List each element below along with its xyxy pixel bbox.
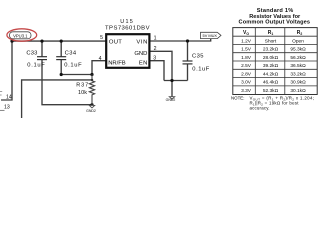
red annotation ellipse [7, 29, 37, 41]
svg-text:3: 3 [153, 55, 156, 61]
wire GND pin 2 down [150, 51, 173, 80]
svg-text:4: 4 [99, 56, 102, 62]
svg-text:NR/FB: NR/FB [108, 60, 126, 66]
pin 13 stub [0, 109, 5, 111]
wire from net label down to pin 14 [1, 41, 12, 100]
svg-text:44.2kΩ: 44.2kΩ [263, 71, 279, 77]
capacitor C33 [37, 57, 47, 60]
wire VIN pin 1 to 5V MUX flag [150, 38, 211, 41]
table grid [233, 28, 317, 95]
wire C33 top lead [41, 41, 43, 56]
wire output net main horizontal [12, 40, 106, 42]
svg-text:Short: Short [265, 38, 277, 44]
wire rail lower net to NR/FB node [22, 80, 92, 118]
svg-text:GND2: GND2 [86, 109, 96, 113]
svg-text:1.2V: 1.2V [241, 38, 252, 44]
svg-text:C34: C34 [65, 51, 77, 57]
wire right ground stem [171, 81, 173, 97]
node junction dots [10, 39, 189, 106]
svg-text:U15: U15 [120, 19, 133, 25]
op-amp U15 regulator body TPS73601DBV [106, 34, 149, 68]
svg-text:33.2kΩ: 33.2kΩ [290, 71, 306, 77]
svg-text:14: 14 [6, 95, 12, 101]
svg-text:28.0kΩ: 28.0kΩ [263, 55, 279, 61]
resistor R37 [89, 75, 94, 105]
svg-text:95.3kΩ: 95.3kΩ [290, 47, 306, 53]
svg-text:1: 1 [154, 36, 157, 42]
svg-text:1.5V: 1.5V [241, 47, 252, 53]
svg-text:5: 5 [100, 35, 103, 41]
svg-text:Common Output Voltages: Common Output Voltages [239, 20, 311, 26]
svg-text:GND: GND [134, 51, 147, 57]
svg-text:TPS73601DBV: TPS73601DBV [105, 26, 150, 32]
wire EN pin 3 down [150, 61, 165, 81]
ground GND2 right [169, 97, 174, 100]
svg-text:1.8V: 1.8V [241, 55, 252, 61]
wire NR/FB pin 4 to R37 [92, 61, 106, 75]
svg-text:2: 2 [154, 46, 157, 52]
svg-text:R37: R37 [76, 83, 88, 89]
svg-text:GND2: GND2 [166, 98, 176, 102]
svg-text:52.3kΩ: 52.3kΩ [263, 88, 279, 94]
svg-text:13: 13 [4, 104, 10, 110]
svg-text:VPU3.1: VPU3.1 [13, 33, 28, 38]
ground GND2 left [89, 105, 94, 108]
svg-text:30.1kΩ: 30.1kΩ [290, 88, 306, 94]
svg-text:Open: Open [292, 38, 304, 44]
svg-text:0.1uF: 0.1uF [192, 66, 209, 72]
svg-text:23.2kΩ: 23.2kΩ [263, 47, 279, 53]
svg-text:10k: 10k [78, 90, 87, 96]
svg-text:3.0V: 3.0V [241, 80, 252, 86]
table data rows [241, 38, 306, 94]
svg-text:C33: C33 [26, 51, 37, 57]
svg-text:56.2kΩ: 56.2kΩ [290, 55, 306, 61]
table title [239, 8, 311, 25]
capacitor C34 [56, 57, 66, 60]
svg-text:accuracy.: accuracy. [250, 105, 270, 110]
wire ground rail left [42, 60, 92, 105]
svg-text:C35: C35 [192, 53, 204, 59]
svg-text:2.8V: 2.8V [241, 71, 252, 77]
svg-text:2.5V: 2.5V [241, 63, 252, 69]
svg-text:5V MUX: 5V MUX [203, 33, 218, 38]
svg-text:0.1uF: 0.1uF [27, 62, 45, 68]
svg-text:EN: EN [139, 60, 148, 66]
svg-text:0.1uF: 0.1uF [64, 62, 82, 68]
svg-text:30.9kΩ: 30.9kΩ [290, 80, 306, 86]
wire ground rail right [164, 80, 188, 82]
svg-text:NOTE:: NOTE: [231, 96, 244, 101]
svg-text:OUT: OUT [109, 40, 122, 46]
svg-text:36.5kΩ: 36.5kΩ [290, 63, 306, 69]
net label VPU3.1 flag [10, 32, 32, 39]
wire rail from C34 bottom to NR/FB node [61, 74, 92, 76]
wire C35 leads [187, 41, 189, 61]
svg-text:VIN: VIN [136, 40, 147, 46]
wire C34 leads [60, 41, 62, 56]
svg-text:46.4kΩ: 46.4kΩ [263, 80, 279, 86]
node 5V MUX off-page flag [201, 32, 222, 38]
left edge fragment [0, 92, 2, 96]
table header row [243, 30, 302, 36]
capacitor C35 [183, 61, 193, 64]
table note [231, 96, 314, 111]
svg-text:39.2kΩ: 39.2kΩ [263, 63, 279, 69]
svg-text:3.3V: 3.3V [241, 88, 252, 94]
